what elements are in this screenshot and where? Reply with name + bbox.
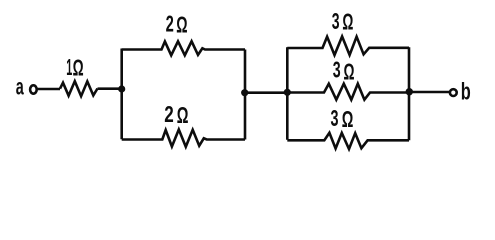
svg-text:Ω: Ω bbox=[73, 55, 84, 81]
svg-text:3: 3 bbox=[331, 105, 339, 131]
box2 top rail wire with resistor 3ohm bbox=[287, 37, 409, 56]
svg-text:Ω: Ω bbox=[342, 9, 353, 35]
wire node3 to b bbox=[409, 91, 451, 94]
svg-text:b: b bbox=[461, 79, 471, 106]
wire R1 to node bbox=[98, 87, 122, 90]
svg-text:Ω: Ω bbox=[177, 102, 189, 128]
box1 bottom rail wire with resistor 2ohm bbox=[122, 130, 245, 147]
svg-text:2: 2 bbox=[164, 101, 174, 127]
svg-text:2: 2 bbox=[166, 11, 174, 37]
svg-text:Ω: Ω bbox=[344, 58, 355, 84]
box2 middle branch wire with resistor 3ohm bbox=[287, 84, 409, 100]
node at box2 right bbox=[406, 88, 413, 95]
box2 left vertical wire bbox=[286, 47, 289, 140]
box1 left vertical wire bbox=[120, 49, 123, 140]
box2 bottom rail wire with resistor 3ohm bbox=[287, 133, 409, 149]
wire node1 to node2 bbox=[245, 91, 287, 94]
box1 top rail wire with resistor 2ohm bbox=[122, 41, 245, 55]
wire a to R1 bbox=[38, 88, 61, 91]
node at box1 right bbox=[241, 89, 248, 96]
svg-text:3: 3 bbox=[332, 8, 340, 34]
node at box1 left bbox=[118, 85, 125, 92]
node at box2 left bbox=[284, 89, 291, 96]
svg-text:3: 3 bbox=[333, 56, 341, 82]
terminal b bbox=[450, 89, 457, 96]
svg-text:Ω: Ω bbox=[176, 11, 187, 37]
svg-text:a: a bbox=[16, 74, 24, 100]
resistor R1 1ohm bbox=[60, 81, 97, 96]
svg-text:1: 1 bbox=[66, 54, 72, 80]
terminal a bbox=[30, 85, 37, 93]
box2 right vertical wire bbox=[408, 47, 411, 140]
box1 right vertical wire bbox=[244, 50, 247, 140]
svg-text:Ω: Ω bbox=[342, 106, 354, 132]
